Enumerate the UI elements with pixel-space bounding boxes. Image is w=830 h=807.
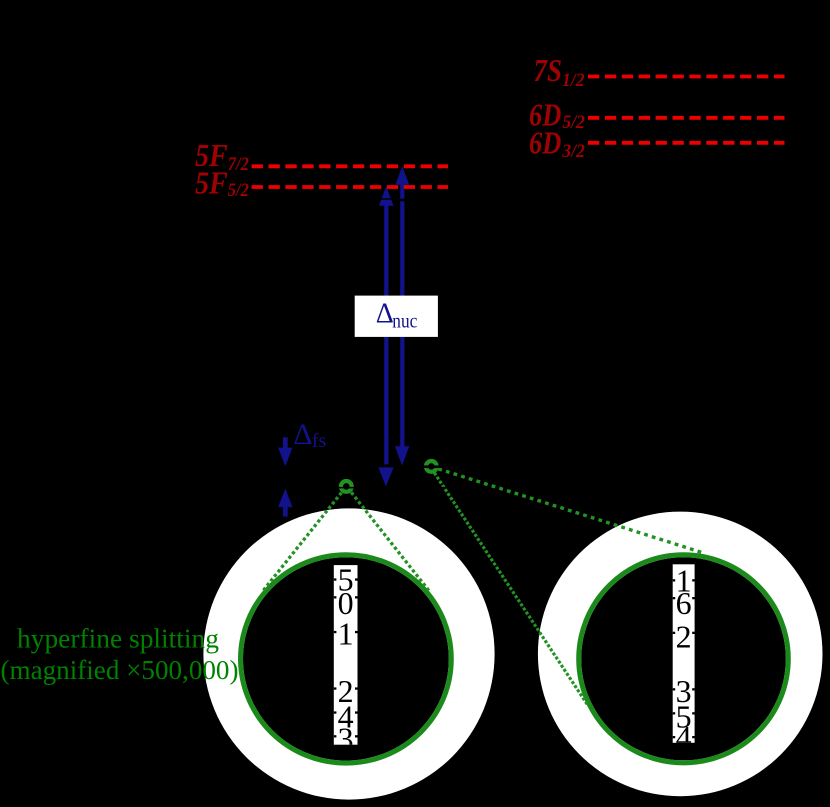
left white label strip — [334, 565, 358, 745]
fs splitting up arrow — [278, 489, 292, 517]
blue transition arrow right (to 5F7/2) — [395, 166, 409, 465]
big right inner black disk — [581, 557, 786, 760]
label 6D3/2 — [529, 124, 585, 162]
label 5F7/2 — [195, 137, 249, 175]
right strip level ticks — [673, 579, 695, 738]
black shifted 5F5/2 level line cutting left arrowhead — [340, 198, 394, 200]
big left inner black disk — [243, 557, 449, 760]
magnifier dotted line right-b — [434, 473, 588, 706]
blue transition arrow left (to 5F5/2) — [378, 186, 393, 486]
magnifier dotted line right-a — [438, 469, 702, 553]
level 6D5/2 dashed line — [588, 116, 785, 120]
nucleus ground: big left white disk — [203, 508, 494, 799]
label 7S1/2 — [534, 52, 585, 91]
black upper nuclear level line cutting left arrow — [376, 464, 395, 467]
svg-text:Δ: Δ — [376, 298, 394, 329]
left hyperfine F numbers — [338, 562, 354, 757]
svg-text:3/2: 3/2 — [561, 141, 585, 162]
level 7S1/2 dashed line — [588, 75, 785, 79]
fs splitting down arrow — [278, 437, 292, 466]
svg-text:(magnified ×500,000): (magnified ×500,000) — [1, 655, 239, 685]
Delta nuc white box — [355, 296, 438, 337]
right hyperfine F numbers — [676, 563, 692, 756]
Delta fs label — [293, 418, 326, 452]
svg-text:nuc: nuc — [392, 311, 417, 333]
left strip level ticks — [334, 578, 358, 737]
svg-text:5F: 5F — [195, 165, 228, 201]
level 6D3/2 dashed line — [588, 141, 785, 145]
svg-text:hyperfine splitting: hyperfine splitting — [17, 623, 219, 653]
svg-text:7/2: 7/2 — [228, 154, 249, 175]
black upper nuclear level line through excited small circle — [410, 465, 481, 468]
svg-text:fs: fs — [312, 430, 327, 452]
big right green ring — [579, 555, 789, 763]
black lower nuclear level line through ground small circle — [275, 487, 480, 489]
label 5F5/2 — [195, 165, 249, 202]
black shifted 5F5/2 level line cutting right arrow shaft — [394, 199, 470, 202]
svg-text:5/2: 5/2 — [228, 180, 249, 201]
svg-text:1: 1 — [338, 616, 354, 652]
label 6D5/2 — [529, 97, 585, 134]
small circle ground nucleus — [341, 481, 352, 492]
svg-text:Δ: Δ — [293, 418, 312, 451]
svg-text:5/2: 5/2 — [562, 112, 585, 133]
level 5F7/2 dashed line — [252, 164, 448, 168]
svg-text:1/2: 1/2 — [562, 70, 585, 91]
svg-text:6: 6 — [676, 585, 692, 621]
level 5F5/2 dashed line — [252, 185, 448, 189]
right white label strip — [673, 564, 695, 743]
big left green ring — [241, 555, 452, 763]
svg-text:2: 2 — [676, 619, 692, 655]
nucleus excited: big right white disk — [538, 512, 823, 797]
magnifier dotted line left-b — [351, 492, 430, 592]
svg-text:6D: 6D — [529, 124, 561, 160]
Delta nuc label — [376, 298, 418, 332]
svg-text:7S: 7S — [534, 52, 563, 88]
magnifier dotted line left-a — [262, 493, 342, 592]
small circle excited nucleus — [426, 461, 437, 472]
